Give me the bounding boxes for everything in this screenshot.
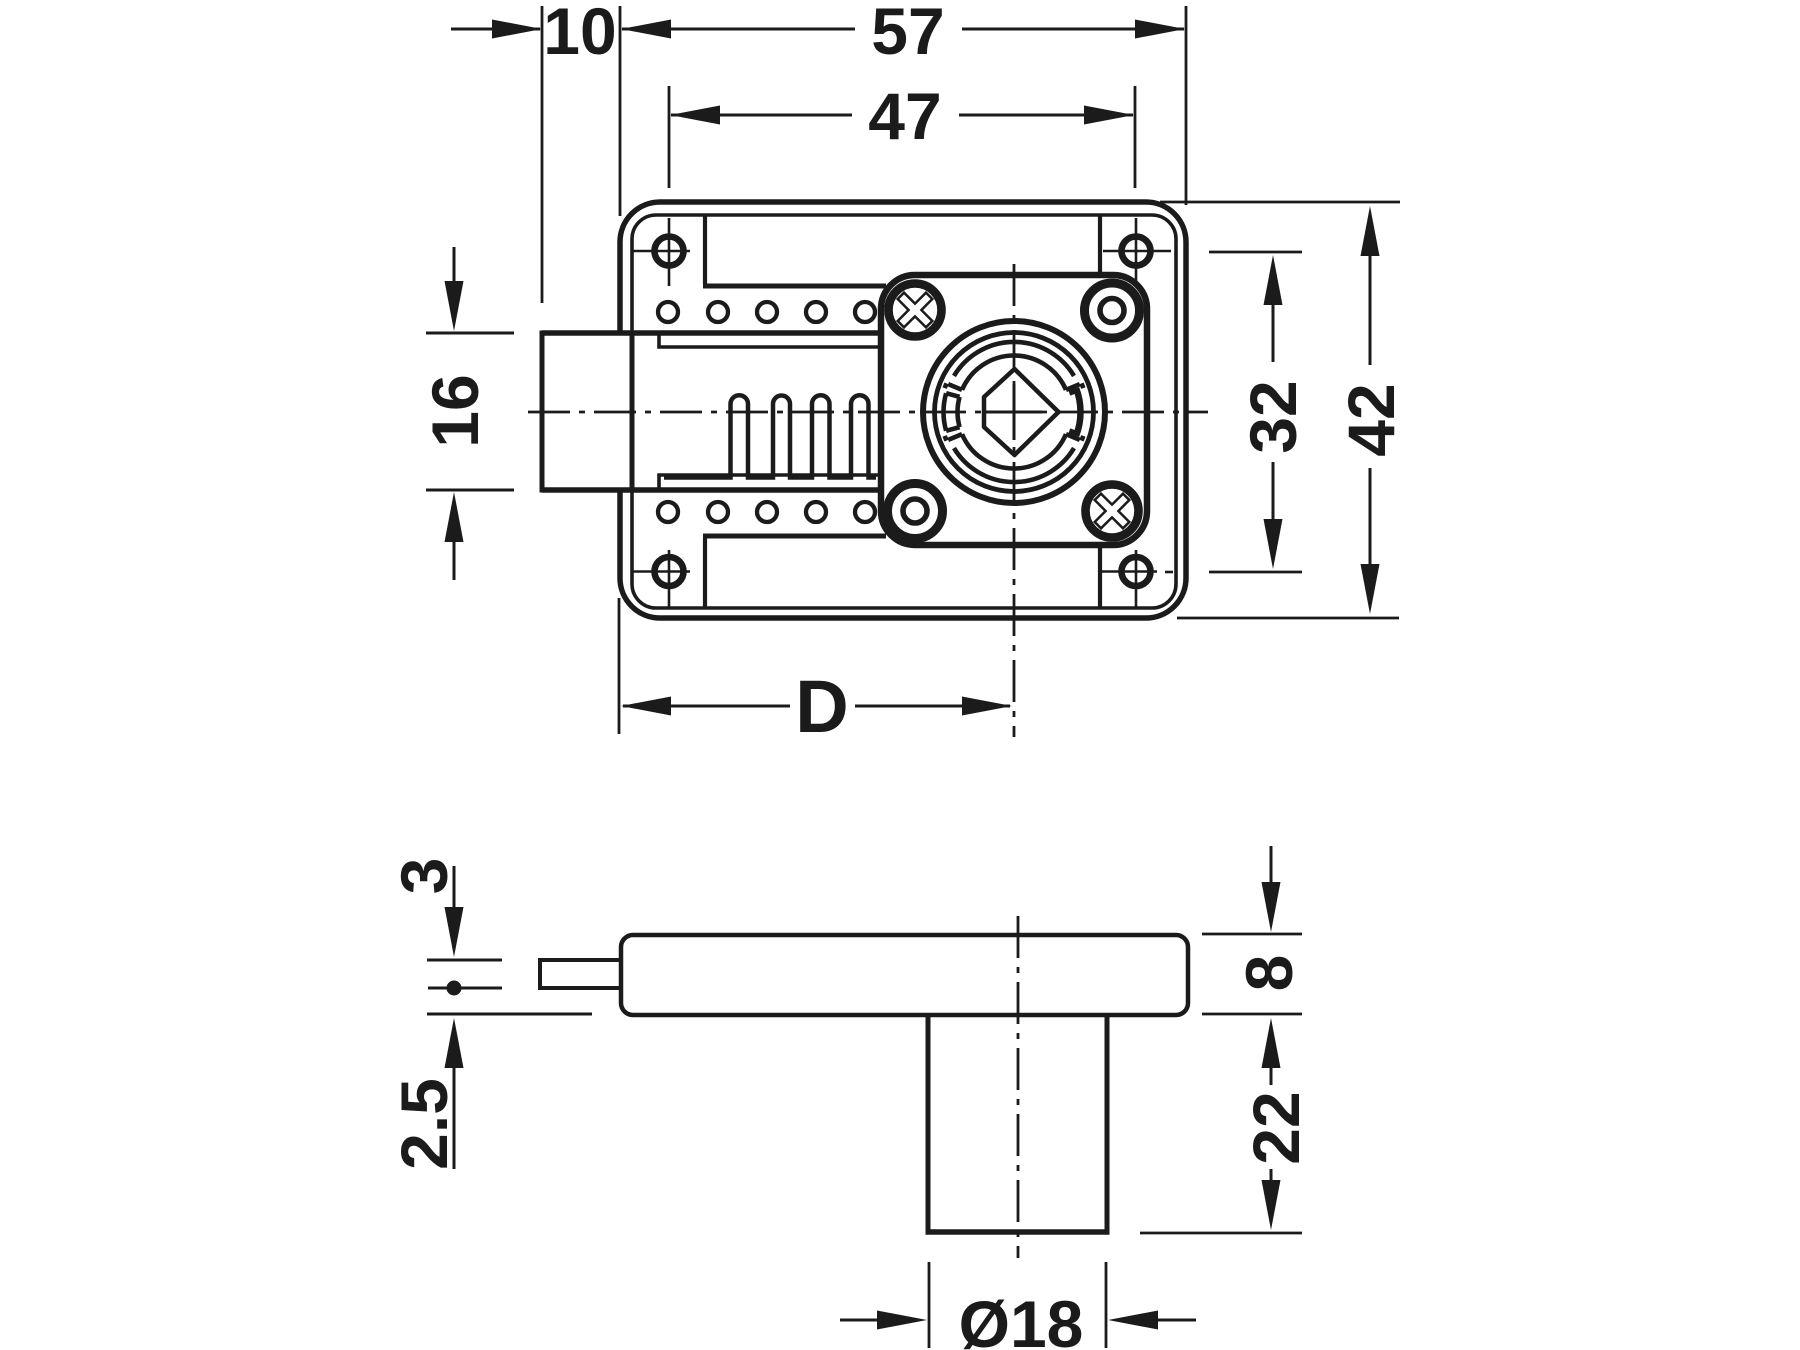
- svg-text:47: 47: [868, 79, 941, 153]
- svg-text:10: 10: [543, 0, 616, 68]
- case corner hole bottom-left: [633, 550, 690, 608]
- svg-text:8: 8: [1232, 955, 1306, 992]
- svg-text:D: D: [795, 665, 848, 748]
- dimension D: [619, 598, 1012, 748]
- bottom cutout: [703, 538, 707, 608]
- case corner hole top-right: [1103, 218, 1171, 286]
- side view centerline: [1017, 916, 1020, 1258]
- corner hole centerline dash bottom-right: [1165, 571, 1173, 574]
- extension line hole right: [1134, 86, 1137, 188]
- dimension 10: [451, 0, 617, 68]
- row of rivet holes top: [658, 302, 875, 322]
- side view bolt stub: [540, 960, 621, 988]
- rotor cam bottom band: [945, 434, 1084, 482]
- rotor center cross: [986, 384, 1042, 440]
- dimension 42: [1160, 202, 1408, 618]
- svg-text:16: 16: [418, 374, 492, 447]
- rotor cam left band: [944, 393, 960, 431]
- extension line case left: [619, 6, 622, 216]
- extension line hole left: [668, 86, 671, 188]
- bolt guide step top: [659, 334, 878, 347]
- mounting plate: [881, 275, 1147, 545]
- side view cylinder: [928, 1016, 1107, 1230]
- vertical centerline: [1013, 264, 1016, 737]
- svg-text:32: 32: [1236, 380, 1310, 453]
- lock case outer outline: [620, 202, 1186, 618]
- dimension 16: [418, 247, 514, 580]
- plate screw phillips bottom-right: [1086, 485, 1139, 538]
- dimension 3: [387, 858, 592, 1014]
- bolt guide step bottom: [659, 475, 878, 489]
- extension line bolt face: [541, 6, 544, 303]
- bolt top edge: [542, 330, 878, 336]
- svg-text:2.5: 2.5: [387, 1078, 461, 1170]
- case corner hole bottom-right: [1100, 550, 1157, 608]
- dimension 57: [621, 0, 1185, 68]
- spindle hole: [984, 369, 1059, 455]
- dimension 47: [670, 79, 1134, 153]
- plate screw ring top-right: [1085, 283, 1140, 338]
- dimension 8: [1202, 846, 1306, 1085]
- svg-text:42: 42: [1334, 383, 1408, 456]
- svg-text:57: 57: [871, 0, 944, 68]
- rotor outer circle: [923, 321, 1105, 503]
- bolt inner end: [630, 334, 635, 489]
- svg-text:Ø18: Ø18: [959, 1287, 1084, 1350]
- svg-text:22: 22: [1239, 1091, 1313, 1164]
- rotor cam right band: [1076, 388, 1080, 436]
- dimension 2.5: [387, 1018, 464, 1170]
- dimension 32: [1209, 252, 1310, 572]
- spring: [664, 395, 876, 477]
- bolt stub outside case: [542, 333, 620, 490]
- rotor second circle: [935, 333, 1094, 492]
- dimension diameter 18: [840, 1262, 1196, 1350]
- case corner hole top-left: [633, 218, 690, 286]
- rotor cam top band: [945, 342, 1084, 390]
- plate screw phillips top-left: [889, 284, 942, 337]
- svg-text:3: 3: [387, 858, 461, 895]
- horizontal centerline: [528, 411, 1208, 414]
- top cutout: [703, 216, 707, 284]
- dimension 22: [1140, 1091, 1313, 1233]
- extension line case right: [1185, 6, 1188, 205]
- bolt bottom edge: [542, 487, 878, 493]
- side view case: [621, 935, 1188, 1015]
- lock case inner outline: [632, 215, 1176, 608]
- row of rivet holes bottom: [658, 502, 875, 522]
- plate screw ring bottom-left: [888, 484, 943, 539]
